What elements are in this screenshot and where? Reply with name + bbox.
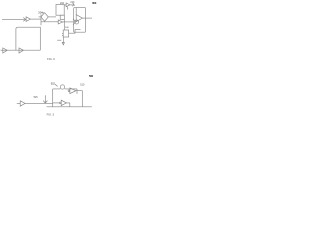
wire A3 out [70,4,72,6]
wire lower bus [41,21,58,23]
wire A7 to loop [25,102,53,104]
node under D1 [44,21,45,22]
amplifier A5 [3,48,7,53]
amplifier A1 [26,17,30,22]
wire input FIG5 [17,102,20,104]
wire bottom rail FIG6 [1,49,41,51]
wire U1 to A3 [64,4,66,6]
arrowhead into U4 [73,19,76,25]
wire feedback loop [16,27,40,50]
arrow down mark [62,37,64,43]
arrowhead at U4 top [72,4,74,7]
arrowhead input [23,18,25,22]
wire output FIG6 [82,17,92,19]
box U1 [56,5,64,16]
wire D1 right [48,16,56,18]
bar at diamond left [40,14,42,25]
loop right edge [76,89,78,94]
amplifier A4 in U4 [76,15,82,22]
svg-text:502: 502 [51,82,56,85]
leader label 204 [41,12,44,14]
svg-text:204: 204 [38,11,43,15]
svg-text:FIG. 5: FIG. 5 [47,113,55,117]
amplifier A6 [19,48,23,53]
circle C1 [75,20,79,24]
arrowhead down [62,42,64,44]
loop bottom rail [47,106,92,108]
amplifier A2 [58,20,62,24]
svg-text:500: 500 [89,74,94,78]
box U2 [60,15,64,19]
stub below A3 [67,7,69,10]
stub U3 left a [62,32,63,34]
wire A8 out [76,91,82,107]
wire D1 left stub [39,16,41,18]
bubble B1 [68,90,70,92]
wire into A4 [75,8,77,15]
amplifier A7 [20,101,25,106]
node J1 [57,21,58,22]
wire U3 out [69,30,81,34]
leader label 502 [55,84,58,86]
wire A1 to bar [30,18,41,20]
arrow down onto wire [43,95,47,103]
svg-text:206: 206 [65,27,69,29]
loop left edge [52,89,54,107]
bubble B2 [59,102,61,104]
stub U3 left b [62,35,63,37]
svg-text:FIG. 6: FIG. 6 [47,57,55,61]
box U4 [74,8,86,33]
wire A2 to box edge [63,21,74,23]
loop top edge [53,88,77,90]
svg-text:515: 515 [34,96,39,99]
wire A9 tip stub [67,103,70,107]
wire input FIG6 [2,18,26,20]
wire U2 down to U3 [63,19,65,30]
svg-text:600: 600 [92,1,97,5]
diamond D1 [41,13,48,22]
svg-text:202: 202 [60,2,65,5]
tick mark [57,39,61,41]
svg-text:510: 510 [80,83,85,86]
amplifier A3 [66,3,70,7]
svg-text:210: 210 [70,1,75,4]
wire bubble left stub [53,102,60,104]
leader label 210 [73,3,74,6]
box U3 [63,30,68,37]
circle C2 [60,85,64,89]
amplifier A9 [61,100,66,105]
amplifier A8 [70,88,76,94]
